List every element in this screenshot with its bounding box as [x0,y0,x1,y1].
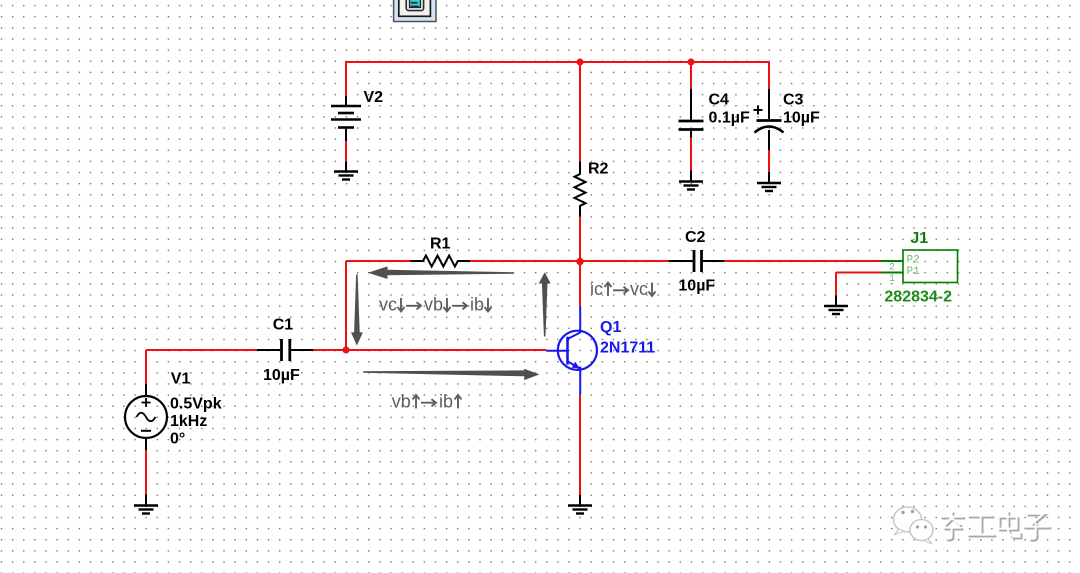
svg-text:0.1µF: 0.1µF [709,110,750,127]
svg-text:0°: 0° [170,431,185,448]
svg-text:2N1711: 2N1711 [600,339,655,356]
svg-text:R2: R2 [588,161,609,178]
svg-text:Q1: Q1 [600,319,621,336]
svg-text:10µF: 10µF [263,367,300,384]
svg-text:vc: vc [630,279,648,299]
svg-text:ic: ic [590,279,603,299]
svg-text:C3: C3 [783,92,804,109]
svg-text:vb: vb [424,295,443,315]
svg-text:C1: C1 [273,317,294,334]
svg-text:0.5Vpk: 0.5Vpk [170,396,222,413]
svg-text:vc: vc [379,295,397,315]
svg-text:ib: ib [470,295,484,315]
svg-text:10µF: 10µF [783,110,820,127]
svg-text:J1: J1 [910,230,928,247]
svg-text:1kHz: 1kHz [170,413,207,430]
svg-text:P2: P2 [907,255,920,267]
svg-text:R1: R1 [430,235,451,252]
svg-text:C4: C4 [709,92,730,109]
svg-text:ib: ib [439,391,453,411]
svg-text:1: 1 [889,274,895,285]
svg-text:V2: V2 [364,89,384,106]
svg-text:V1: V1 [171,371,191,388]
svg-text:10µF: 10µF [678,277,715,294]
svg-text:2: 2 [889,263,895,274]
svg-text:vb: vb [392,391,411,411]
svg-text:C2: C2 [685,229,706,246]
svg-text:282834-2: 282834-2 [884,289,952,306]
svg-text:P1: P1 [907,266,921,278]
